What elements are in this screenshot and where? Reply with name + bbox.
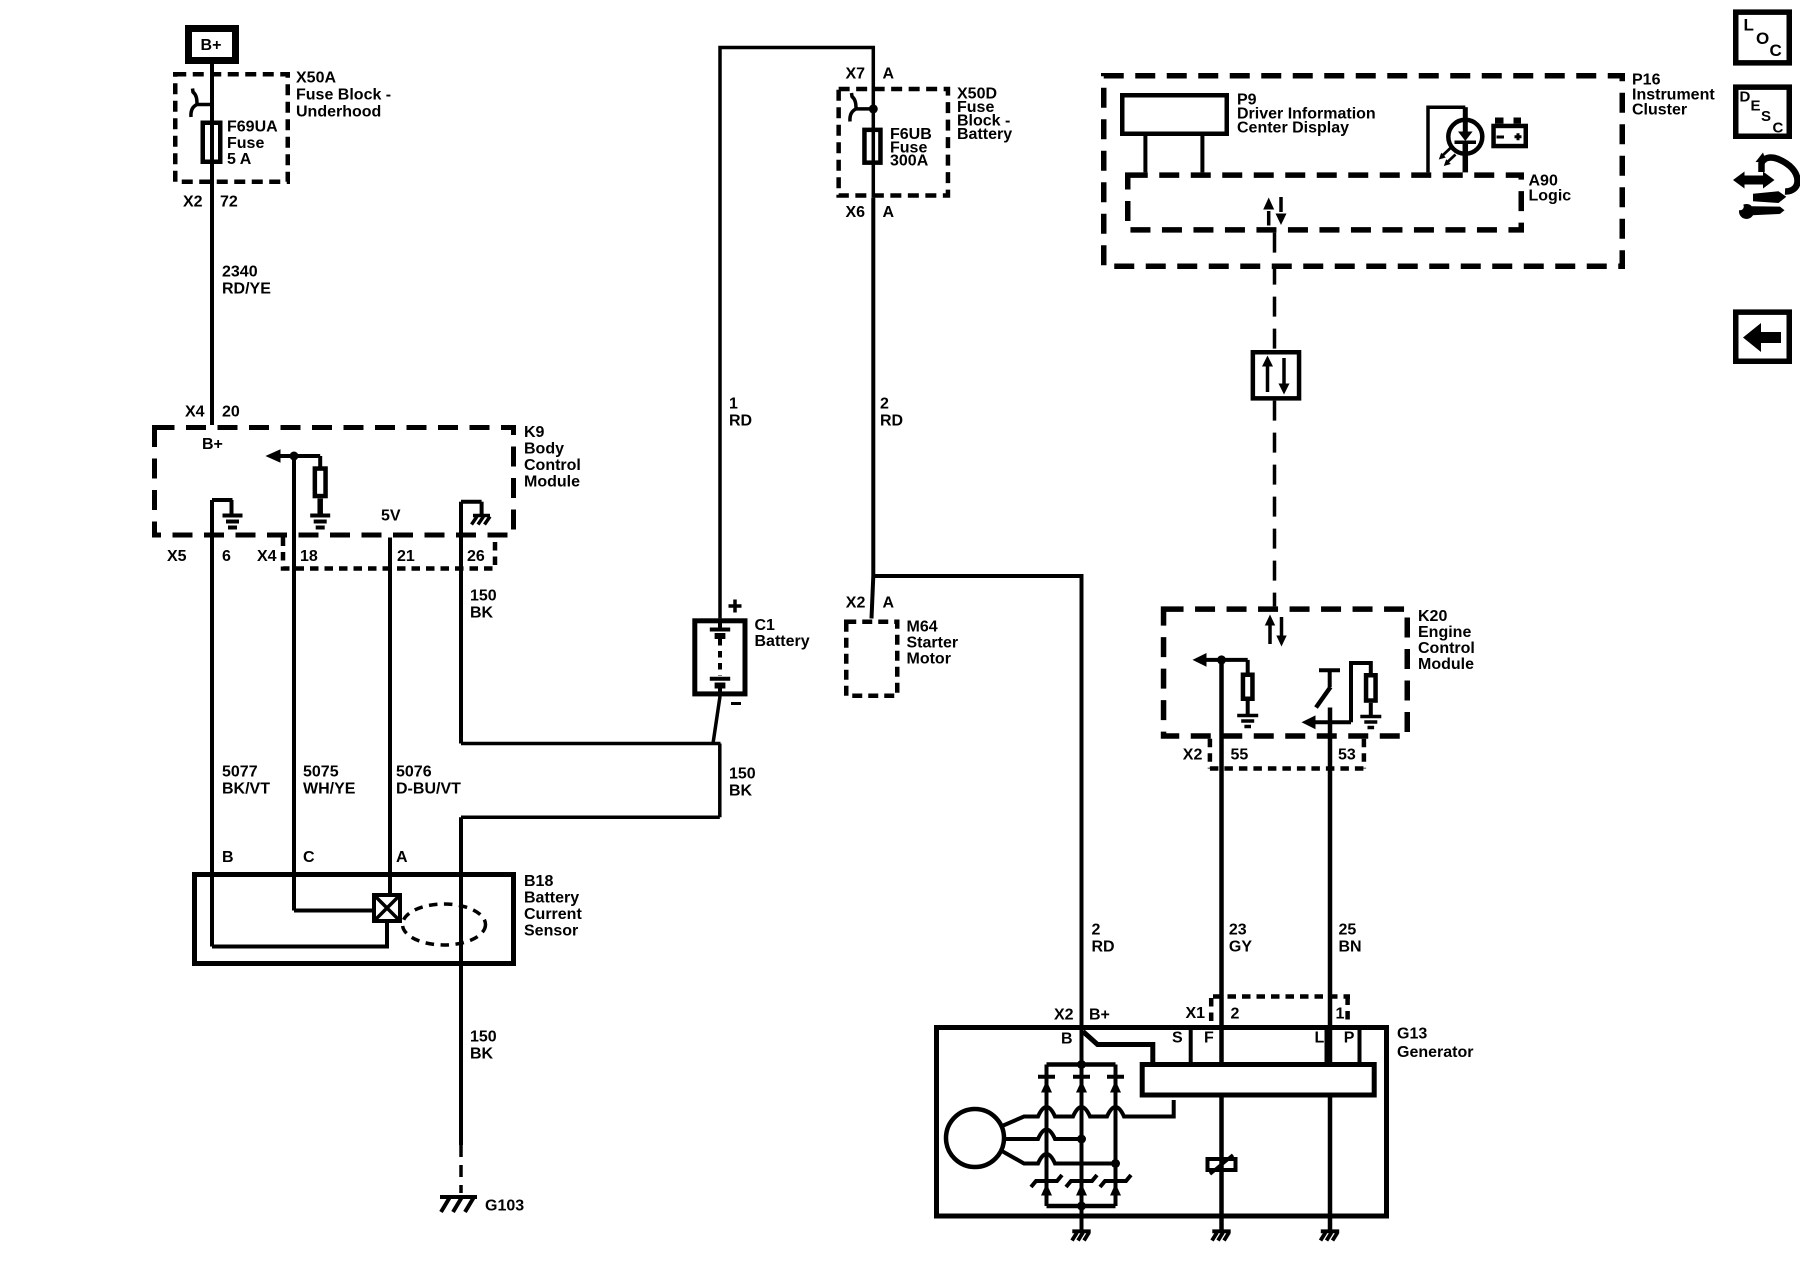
starter motor M64 box: [846, 622, 897, 696]
svg-text:6: 6: [222, 548, 231, 565]
svg-text:21: 21: [397, 548, 415, 565]
K9 pin26 internal chassis ground: [459, 502, 463, 538]
svg-text:C1: C1: [755, 617, 776, 634]
wire pin6 to B18 B: [210, 538, 214, 947]
svg-text:B18: B18: [524, 873, 553, 890]
svg-text:F69UA: F69UA: [227, 119, 278, 136]
svg-text:5077: 5077: [222, 764, 258, 781]
svg-text:X1: X1: [1186, 1005, 1206, 1022]
svg-text:K20: K20: [1418, 608, 1447, 625]
svg-text:2: 2: [1231, 1006, 1240, 1023]
svg-text:5V: 5V: [381, 508, 401, 525]
wire B+ to fuse block and down to K9: [210, 64, 214, 425]
svg-text:A: A: [883, 66, 895, 83]
svg-text:B+: B+: [201, 37, 222, 54]
wire into starter motor: [872, 576, 874, 619]
svg-text:72: 72: [220, 194, 238, 211]
B18 Battery Current Sensor box: [195, 875, 514, 964]
B18 internal wiring: [212, 923, 387, 947]
svg-text:X50A: X50A: [296, 70, 336, 87]
svg-text:X2: X2: [1054, 1007, 1074, 1024]
connector X4 sub-box under K9: [283, 538, 495, 569]
stator phase 2 wire: [1004, 1130, 1082, 1140]
DESC icon box: [1736, 87, 1790, 136]
svg-text:L: L: [1744, 16, 1754, 35]
B+ wire through bridge to ground: [1080, 1025, 1084, 1231]
svg-text:20: 20: [222, 404, 240, 421]
indicator LED circuit: [1428, 107, 1465, 172]
wire junction to generator: [873, 576, 1081, 1025]
svg-text:X4: X4: [257, 548, 277, 565]
svg-text:D: D: [1740, 89, 1751, 106]
svg-text:BK: BK: [470, 605, 494, 622]
stator phase 3 wire: [1001, 1151, 1116, 1164]
wire top feed to battery: [720, 48, 873, 619]
svg-text:2340: 2340: [222, 264, 258, 281]
svg-text:G13: G13: [1397, 1026, 1427, 1043]
svg-text:150: 150: [470, 588, 497, 605]
svg-text:Starter: Starter: [907, 635, 959, 652]
dashed wire stub to G103: [459, 1145, 463, 1193]
svg-text:B: B: [222, 849, 234, 866]
A90 serial data arrows: [1267, 211, 1271, 226]
svg-text:P: P: [1344, 1030, 1355, 1047]
fuse F6UB: [864, 130, 880, 163]
svg-text:C: C: [303, 849, 315, 866]
svg-text:Center Display: Center Display: [1237, 120, 1349, 137]
svg-text:5 A: 5 A: [227, 151, 252, 168]
svg-text:5075: 5075: [303, 764, 339, 781]
bottom zener diodes: [1031, 1175, 1131, 1187]
svg-text:2: 2: [1092, 922, 1101, 939]
svg-text:1: 1: [1336, 1006, 1345, 1023]
svg-text:BN: BN: [1339, 939, 1362, 956]
serial data dashed wire lower: [1273, 401, 1277, 607]
battery C1 box: [695, 621, 745, 694]
svg-text:RD/YE: RD/YE: [222, 281, 271, 298]
fuse block X50D box: [839, 89, 948, 196]
svg-text:Module: Module: [524, 474, 580, 491]
svg-text:X2: X2: [183, 194, 203, 211]
svg-text:Control: Control: [1418, 640, 1475, 657]
SECTION-GEN-END: [1732, 12, 1798, 361]
svg-text:BK/VT: BK/VT: [222, 781, 270, 798]
svg-text:Logic: Logic: [1529, 188, 1572, 205]
K9 pin6 internal ground: [210, 500, 214, 538]
svg-text:Body: Body: [524, 441, 564, 458]
fuse block X50A box: [175, 74, 288, 182]
svg-text:300A: 300A: [890, 153, 929, 170]
svg-text:Fuse: Fuse: [227, 135, 264, 152]
svg-text:150: 150: [729, 766, 756, 783]
svg-text:X7: X7: [846, 66, 866, 83]
A90 logic box: [1128, 175, 1522, 230]
bridge columns: [1045, 1065, 1049, 1207]
svg-text:S: S: [1761, 108, 1771, 125]
svg-text:Module: Module: [1418, 656, 1474, 673]
svg-text:Sensor: Sensor: [524, 923, 578, 940]
svg-text:M64: M64: [907, 619, 938, 636]
ground G103: [440, 1197, 477, 1212]
K9 internal arrow and junction: [265, 449, 280, 462]
B18 dashed ellipse: [403, 904, 486, 945]
svg-text:X2: X2: [846, 595, 866, 612]
svg-text:G103: G103: [485, 1198, 524, 1215]
svg-text:A: A: [883, 595, 895, 612]
wire pin55 to generator F: [1219, 771, 1224, 1062]
wire battery negative: [713, 696, 720, 743]
svg-text:X6: X6: [846, 204, 866, 221]
back arrow icon box: [1736, 312, 1790, 361]
stator phase 1 wire: [1001, 1100, 1174, 1127]
rotor/stator circle: [946, 1109, 1004, 1167]
battery telltale icon: [1494, 126, 1526, 146]
B to S tap wire: [1083, 1032, 1153, 1063]
svg-text:Battery: Battery: [524, 890, 579, 907]
svg-text:X2: X2: [1183, 747, 1203, 764]
svg-text:S: S: [1172, 1030, 1183, 1047]
connector X1 dashed above generator: [1211, 997, 1350, 1022]
svg-text:C: C: [1770, 41, 1782, 60]
rectifier bridge rails: [1047, 1062, 1116, 1067]
generator G13 box: [937, 1028, 1387, 1217]
bus tap hook: [850, 93, 872, 122]
voltage regulator block: [1142, 1065, 1374, 1096]
svg-text:53: 53: [1338, 747, 1356, 764]
display P9 box: [1122, 95, 1227, 134]
P wire below regulator: [1328, 1098, 1333, 1232]
B+ terminal box: [189, 29, 236, 61]
wire 5V pin21 to B18 A: [388, 538, 392, 894]
svg-text:25: 25: [1339, 922, 1357, 939]
ground below field: [1212, 1231, 1231, 1240]
svg-text:18: 18: [300, 548, 318, 565]
wire pin18 to B18 C: [292, 456, 296, 911]
ground below P: [1321, 1231, 1340, 1240]
bus tap hook: [191, 89, 213, 118]
svg-text:B+: B+: [202, 436, 223, 453]
serial data dashed wire upper: [1273, 233, 1277, 350]
svg-text:Motor: Motor: [907, 651, 951, 668]
svg-text:O: O: [1756, 29, 1769, 48]
battery cell symbol: [718, 618, 722, 629]
engine control module K20 box: [1164, 609, 1408, 736]
plus sign: [729, 600, 742, 613]
SECTION-LEFT-END: [461, 48, 1082, 1026]
connector X2 sub-box under K20: [1210, 739, 1364, 769]
svg-text:X4: X4: [185, 404, 205, 421]
svg-text:2: 2: [880, 396, 889, 413]
svg-text:Underhood: Underhood: [296, 104, 381, 121]
fuse F69UA: [203, 123, 221, 162]
wire pin53 to generator L: [1328, 771, 1333, 1062]
svg-text:B+: B+: [1089, 1007, 1110, 1024]
svg-text:Fuse Block -: Fuse Block -: [296, 87, 391, 104]
svg-text:D-BU/VT: D-BU/VT: [396, 781, 461, 798]
svg-text:F: F: [1204, 1030, 1214, 1047]
SECTION-MIDDLE-END: [1104, 72, 1716, 607]
svg-text:Control: Control: [524, 457, 581, 474]
instrument cluster P16 box: [1104, 76, 1623, 267]
wire starter feed: [871, 198, 875, 576]
diagnostics arrows and wrench icon: [1733, 172, 1775, 189]
svg-text:Generator: Generator: [1397, 1044, 1473, 1061]
svg-text:E: E: [1751, 98, 1761, 115]
top diodes: [1038, 1077, 1124, 1093]
K20 pin53 circuit: switch, arrow, resistor, ground: [1319, 668, 1340, 672]
K9 resistor: [318, 456, 322, 467]
svg-text:1: 1: [729, 396, 738, 413]
terminal separators: [1189, 1025, 1193, 1062]
P9 legs: [1143, 136, 1147, 172]
SECTION-RIGHTTOP-END: [1092, 608, 1475, 1062]
minus sign: [731, 702, 741, 705]
svg-text:Engine: Engine: [1418, 624, 1471, 641]
svg-text:A: A: [396, 849, 408, 866]
ground below bridge: [1072, 1231, 1091, 1240]
svg-text:5076: 5076: [396, 764, 432, 781]
field winding component on F wire: [1219, 1098, 1224, 1232]
svg-text:55: 55: [1231, 747, 1249, 764]
svg-text:K9: K9: [524, 424, 545, 441]
K20 serial data arrows: [1268, 623, 1272, 644]
SECTION-K20-END: [937, 997, 1474, 1241]
svg-text:BK: BK: [729, 783, 753, 800]
svg-text:RD: RD: [729, 413, 752, 430]
K9 Body Control Module box: [155, 428, 514, 536]
K20 pin55 circuit: arrow, resistor, ground: [1219, 660, 1224, 771]
svg-text:Battery: Battery: [957, 126, 1012, 143]
svg-text:X5: X5: [167, 548, 187, 565]
wrench: [1739, 204, 1754, 219]
serial data link box: [1253, 352, 1299, 398]
ground under resistor: [310, 516, 330, 528]
LOC icon box: [1736, 12, 1790, 63]
wire pin26 150 BK down: [459, 538, 463, 744]
svg-text:Battery: Battery: [755, 633, 810, 650]
svg-text:L: L: [1315, 1030, 1325, 1047]
svg-text:23: 23: [1229, 922, 1247, 939]
svg-text:A: A: [883, 204, 895, 221]
svg-text:WH/YE: WH/YE: [303, 781, 356, 798]
svg-text:RD: RD: [880, 413, 903, 430]
svg-text:BK: BK: [470, 1046, 494, 1063]
svg-text:150: 150: [470, 1029, 497, 1046]
svg-text:C: C: [1773, 120, 1784, 137]
svg-text:Current: Current: [524, 906, 582, 923]
svg-text:GY: GY: [1229, 939, 1252, 956]
svg-text:26: 26: [467, 548, 485, 565]
LED arrows: [1443, 148, 1456, 162]
B18 sensor element (box with X): [374, 895, 400, 921]
wire 150 BK through B18 to G103: [459, 817, 463, 1145]
svg-text:RD: RD: [1092, 939, 1115, 956]
svg-text:Cluster: Cluster: [1632, 102, 1687, 119]
svg-text:B: B: [1061, 1031, 1073, 1048]
